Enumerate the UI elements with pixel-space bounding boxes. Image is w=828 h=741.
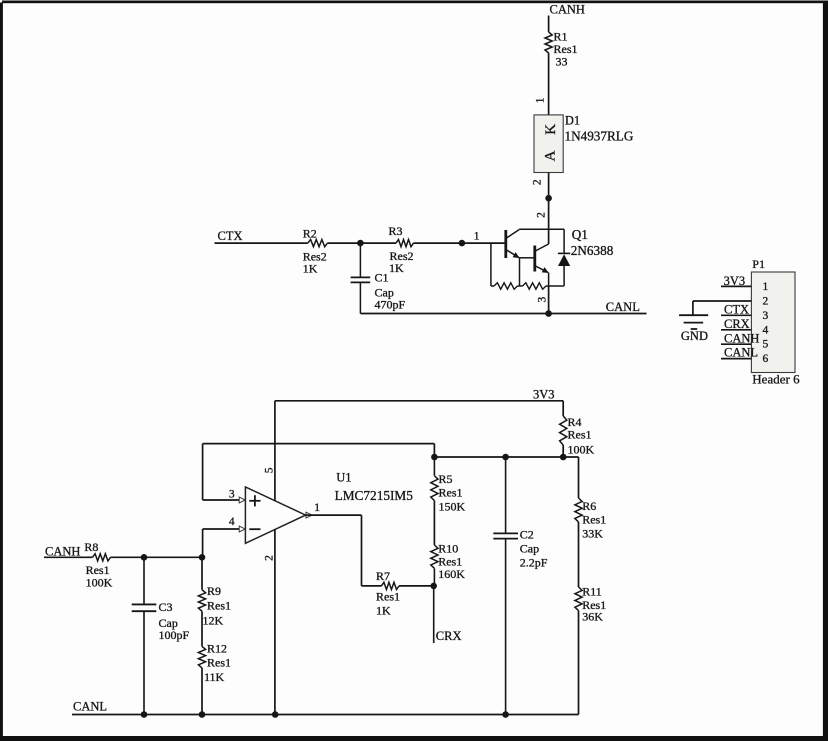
svg-text:R2: R2 <box>303 227 317 241</box>
svg-text:1K: 1K <box>376 604 391 618</box>
svg-text:4: 4 <box>229 516 235 528</box>
svg-text:2: 2 <box>536 212 548 218</box>
wire CTX to R2 <box>215 242 308 244</box>
svg-text:R11: R11 <box>582 585 602 599</box>
capacitor C2 <box>493 457 548 715</box>
junction CANH-C3 <box>141 554 148 561</box>
pin 2 label of D1 <box>532 179 544 185</box>
resistor R3 <box>389 224 414 275</box>
svg-text:Res1: Res1 <box>582 513 606 527</box>
resistor R4 <box>560 415 595 457</box>
resistor R12 <box>198 642 231 685</box>
wire + input link <box>203 444 435 457</box>
node CANL (net label bottom) <box>73 700 107 714</box>
svg-text:36K: 36K <box>582 610 603 624</box>
svg-text:R10: R10 <box>438 542 458 556</box>
resistor R2 <box>303 227 328 276</box>
resistor R9 <box>198 584 231 628</box>
junction node row at R5 <box>431 454 438 461</box>
junction CANL-C2 <box>502 711 509 718</box>
svg-text:2: 2 <box>532 179 544 185</box>
svg-text:1: 1 <box>763 281 769 293</box>
wire op-amp pin 2 drop <box>274 530 276 715</box>
wire CANL rail (bottom) <box>72 714 579 716</box>
svg-text:C3: C3 <box>159 600 173 614</box>
svg-text:R6: R6 <box>582 499 596 513</box>
svg-text:Cap: Cap <box>520 542 539 556</box>
junction CANL-C3 <box>141 711 148 718</box>
svg-text:R5: R5 <box>439 472 453 486</box>
wire R11 to CANL rail <box>578 611 580 715</box>
wire node to R9 <box>201 557 203 589</box>
svg-text:1K: 1K <box>389 261 404 275</box>
svg-text:160K: 160K <box>438 567 465 581</box>
node CANL (net label at header) <box>724 345 758 359</box>
svg-text:3: 3 <box>536 296 548 302</box>
capacitor C1 <box>351 243 406 313</box>
svg-text:GND: GND <box>681 329 708 343</box>
wire R5 to R10 <box>433 501 435 545</box>
wire R7 to CRX node <box>399 585 434 587</box>
capacitor C3 <box>132 557 190 714</box>
svg-text:CANL: CANL <box>724 345 758 359</box>
ground <box>679 315 708 343</box>
svg-text:4: 4 <box>763 324 769 336</box>
wire CANL rail (top) <box>360 313 646 315</box>
wire Q1 emitter to CANL <box>548 286 550 314</box>
svg-text:3: 3 <box>229 489 235 501</box>
svg-text:33: 33 <box>556 55 568 69</box>
svg-text:100K: 100K <box>568 443 595 457</box>
svg-text:2.2pF: 2.2pF <box>520 556 548 570</box>
wire D1 pin 2 down <box>548 173 550 199</box>
wire R3 to Q1 base <box>414 242 462 244</box>
svg-text:CANH: CANH <box>45 544 80 558</box>
svg-text:Res1: Res1 <box>568 427 592 441</box>
diode D1 <box>534 114 634 173</box>
svg-text:1N4937RLG: 1N4937RLG <box>565 128 634 143</box>
svg-text:Res1: Res1 <box>207 656 231 670</box>
wire R8 to op-amp node <box>111 556 203 558</box>
wire P1 pin 2 to ground <box>693 301 752 315</box>
svg-text:3V3: 3V3 <box>533 387 555 401</box>
svg-text:Header 6: Header 6 <box>752 372 800 387</box>
wire CANH to R1 <box>548 16 550 33</box>
svg-text:1: 1 <box>314 502 320 514</box>
pin 1 label of D1 <box>535 97 547 103</box>
svg-text:CANL: CANL <box>73 700 107 714</box>
resistor R6 <box>575 498 606 541</box>
junction D1-Q1 node <box>545 195 552 202</box>
pin 2 label of Q1 <box>536 212 548 218</box>
svg-text:Res1: Res1 <box>376 590 400 604</box>
wire 3V3 to P1 pin 1 <box>721 285 751 287</box>
svg-text:R3: R3 <box>389 224 403 238</box>
svg-text:6: 6 <box>763 353 769 365</box>
wire R12 to CANL rail <box>201 668 203 715</box>
svg-text:A: A <box>543 150 559 161</box>
node CRX (net label stub) <box>434 586 462 643</box>
svg-text:CTX: CTX <box>218 229 243 243</box>
resistor R10 <box>431 542 465 586</box>
junction CANL-pin2 <box>272 711 279 718</box>
wire 3V3 rail <box>275 400 563 402</box>
wire node row <box>434 456 578 458</box>
svg-text:5: 5 <box>263 467 275 473</box>
wire R9 to R12 <box>201 611 203 646</box>
svg-text:11K: 11K <box>204 670 225 684</box>
svg-text:R7: R7 <box>376 569 390 583</box>
wire CANH to R8 <box>44 556 93 558</box>
resistor R1 <box>545 30 578 69</box>
node 3V3 (net label at header) <box>724 274 746 288</box>
svg-text:R12: R12 <box>207 642 227 656</box>
junction R2-R3-C1 <box>357 240 364 247</box>
svg-text:LMC7215IM5: LMC7215IM5 <box>335 488 414 503</box>
op-amp U1 LMC7215IM5 <box>229 467 413 561</box>
wire base into Q1 <box>462 242 506 244</box>
wire op-amp pin 3 riser <box>203 444 246 500</box>
node CANL (net label top) <box>606 300 640 314</box>
svg-text:1: 1 <box>474 231 480 243</box>
wire CTX to P1 pin 3 <box>721 314 751 316</box>
node CTX (net label at header) <box>724 303 749 317</box>
wire R6 to R11 <box>578 522 580 587</box>
svg-text:33K: 33K <box>582 527 603 541</box>
svg-text:12K: 12K <box>203 614 224 628</box>
wire R1 to D1 pin 1 <box>548 53 550 115</box>
svg-text:C2: C2 <box>520 528 534 542</box>
node CRX (net label at header) <box>724 317 750 331</box>
junction R3-Q1 base <box>459 240 466 247</box>
svg-text:CANH: CANH <box>550 3 585 17</box>
transistor Q1 2N6388 <box>491 227 614 289</box>
svg-text:Q1: Q1 <box>572 227 588 242</box>
connector P1 Header 6 <box>751 257 800 386</box>
svg-text:2N6388: 2N6388 <box>571 243 614 258</box>
node CANH (net label) <box>550 3 585 17</box>
svg-text:3: 3 <box>763 310 769 322</box>
node CTX (net label) <box>218 229 243 243</box>
wire R4 to node row <box>562 445 564 457</box>
junction R7-R10-CRX <box>430 583 437 590</box>
resistor R11 <box>575 585 606 624</box>
svg-text:C1: C1 <box>375 271 389 285</box>
svg-text:1K: 1K <box>303 262 318 276</box>
pin 1 label of Q1 <box>474 231 480 243</box>
svg-text:Res1: Res1 <box>207 599 231 613</box>
svg-text:CRX: CRX <box>436 629 462 643</box>
svg-text:1: 1 <box>535 97 547 103</box>
wire node row to R6 <box>578 457 580 498</box>
svg-text:150K: 150K <box>439 500 466 514</box>
svg-text:Res1: Res1 <box>439 486 463 500</box>
wire CANL to P1 pin 6 <box>721 358 751 360</box>
node CANH (net label at header) <box>724 331 759 345</box>
junction CANL-R12 <box>199 711 206 718</box>
junction node row at R4 <box>560 454 567 461</box>
svg-text:470pF: 470pF <box>375 298 406 312</box>
pin 3 label of Q1 <box>536 296 548 302</box>
resistor R8 <box>84 540 112 589</box>
junction Q1-CANL <box>545 310 552 317</box>
svg-text:100K: 100K <box>86 575 113 589</box>
svg-text:P1: P1 <box>752 257 765 271</box>
svg-text:CANL: CANL <box>606 300 640 314</box>
resistor R5 <box>431 457 466 514</box>
junction node row at C2 <box>502 454 509 461</box>
svg-text:U1: U1 <box>336 471 351 485</box>
svg-text:CRX: CRX <box>724 317 750 331</box>
svg-text:D1: D1 <box>565 114 580 128</box>
wire R2 to C1 node <box>328 242 361 244</box>
wire op-amp pin 5 riser <box>274 401 276 501</box>
svg-text:R8: R8 <box>84 540 98 554</box>
svg-text:CANH: CANH <box>724 331 759 345</box>
svg-text:2: 2 <box>763 295 769 307</box>
node 3V3 (net label rail) <box>533 387 555 401</box>
svg-text:100pF: 100pF <box>159 628 190 642</box>
wire op-amp pin 4 riser <box>203 529 246 557</box>
node CANH (net label bottom) <box>45 544 80 558</box>
svg-text:R9: R9 <box>207 584 221 598</box>
wire op-amp output to R7 <box>306 515 382 586</box>
resistor R7 <box>376 569 400 618</box>
junction CANH-R9-pin4 <box>199 554 206 561</box>
svg-text:5: 5 <box>763 339 769 351</box>
wire CRX to P1 pin 4 <box>721 329 751 331</box>
wire to Q1 collector <box>548 198 550 244</box>
svg-text:K: K <box>543 124 559 135</box>
wire C1 node to R3 <box>360 242 396 244</box>
svg-text:2: 2 <box>263 555 275 561</box>
wire 3V3 to R4 <box>562 401 564 416</box>
wire CANH to P1 pin 5 <box>721 343 751 345</box>
